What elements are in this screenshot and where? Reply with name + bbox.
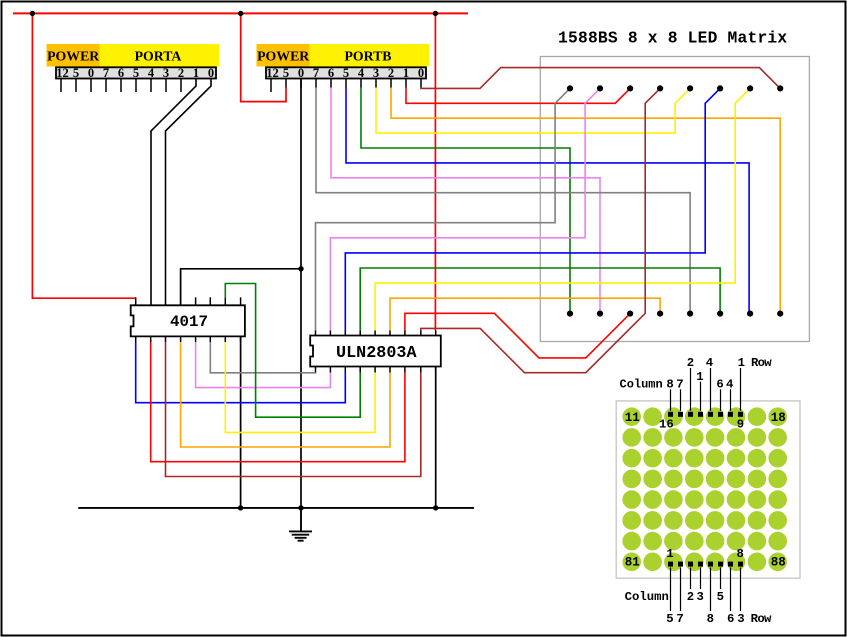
svg-text:1 Row: 1 Row (738, 356, 773, 370)
svg-text:7: 7 (313, 66, 319, 80)
svg-text:2: 2 (687, 590, 694, 604)
wire ULN2803A pin 2 to matrix top pin dot 2 (violet) (330, 88, 600, 330)
svg-text:1: 1 (403, 66, 409, 80)
wire +V rail to PORTB 5V pin (red) (241, 13, 286, 101)
svg-text:6: 6 (328, 66, 334, 80)
svg-text:5: 5 (666, 612, 673, 626)
ground symbol (289, 508, 312, 541)
4017 top pin stubs (136, 297, 241, 305)
matrix bottom pin pads (pins 1..8) (668, 562, 743, 567)
svg-text:7: 7 (676, 377, 683, 391)
matrix schematic top pin nodes (row pins) (567, 85, 783, 91)
svg-text:88: 88 (771, 556, 786, 570)
svg-text:3 Row: 3 Row (737, 612, 772, 626)
svg-text:1: 1 (666, 547, 673, 561)
pin number labels PORTA 12 5 0 7 6 5 4 3 2 1 0 (56, 66, 214, 80)
svg-text:8: 8 (737, 547, 744, 561)
top pin leader lines (671, 368, 741, 411)
junction node ground bus / 4017 (238, 505, 243, 510)
wire PORTA pin 0 to 4017 input (black) (166, 79, 212, 306)
wire 4017 top pin to ULN input pin 12 (green) (225, 284, 360, 418)
svg-text:2: 2 (687, 356, 694, 370)
junction node rail / PORTB 5V (238, 11, 243, 16)
svg-text:0: 0 (88, 66, 94, 80)
svg-text:7: 7 (676, 612, 683, 626)
wire +V rail to 4017 VCC pin (red) (32, 13, 135, 298)
svg-text:POWER: POWER (257, 49, 310, 64)
wire PORTB 0V pin down to ground bus (black) (300, 79, 302, 508)
svg-text:1588BS 8 x 8 LED Matrix: 1588BS 8 x 8 LED Matrix (558, 29, 787, 48)
wire PORTB pin 7 to matrix bottom pin dot 5 (gray) (316, 88, 690, 314)
svg-text:11: 11 (625, 411, 640, 425)
wire 4017 output to ULN input pin 9 (gray) (210, 342, 315, 373)
wire ULN2803A pin 4 to matrix bottom pin dot 6 (green) (360, 268, 720, 331)
svg-text:0: 0 (208, 66, 214, 80)
wire 4017 bottom pin 8 to ground bus (black) (240, 336, 242, 508)
svg-text:Column: Column (625, 590, 669, 604)
wire 4017 top pin to 0V line (black) (181, 269, 301, 306)
connector header PORTB (yellow) (257, 44, 430, 67)
svg-text:6: 6 (727, 612, 734, 626)
junction node rail / ULN COM (433, 11, 438, 16)
wire ULN2803A pin 7 to matrix bottom pin dot 3 (red) (405, 313, 630, 358)
svg-text:9: 9 (737, 418, 744, 432)
pin number labels PORTB 12 5 0 7 6 5 4 3 2 1 0 (266, 66, 424, 80)
svg-text:4: 4 (706, 356, 714, 370)
svg-text:8: 8 (666, 377, 673, 391)
wire ULN2803A pin 3 to matrix top pin dot 6 (blue) (345, 88, 720, 330)
wire 4017 output to ULN input pin 14 (orange) (181, 342, 390, 447)
wire PORTB pin 1 to matrix top pin dot 3 (red) (406, 88, 630, 104)
svg-text:1: 1 (193, 66, 199, 80)
4017 bottom pin stubs (136, 336, 241, 342)
svg-text:5: 5 (133, 66, 139, 80)
connector header PORTA power section (orange) (47, 44, 100, 67)
ULN2803A bottom pin stubs (316, 367, 436, 373)
svg-text:5: 5 (717, 590, 724, 604)
svg-text:18: 18 (771, 411, 786, 425)
junction node PORTB 0V / 4017 pin wire (298, 266, 303, 271)
pin stubs PORTB connected pins (286, 79, 421, 88)
wire +V rail to ULN2803A COM pin 10 (red) (434, 13, 436, 330)
connector header PORTB power section (orange) (257, 44, 310, 67)
svg-text:3: 3 (163, 66, 169, 80)
wire ULN2803A pin 8 to matrix top pin dot 4 (dark red) (421, 88, 660, 372)
svg-text:81: 81 (625, 556, 640, 570)
svg-text:4: 4 (358, 66, 365, 80)
LED matrix schematic box outline (540, 57, 809, 342)
wire 4017 output to ULN input pin 11 (blue) (136, 342, 346, 403)
svg-text:6: 6 (716, 377, 723, 391)
svg-text:12: 12 (266, 66, 279, 80)
wire PORTA pin 1 to 4017 clock input (black) (151, 79, 196, 306)
wire PORTB pin 2 to matrix bottom pin dot 8 (orange) (391, 88, 780, 314)
wire PORTB pin 6 to matrix bottom pin dot 2 (violet) (331, 88, 600, 314)
svg-text:3: 3 (373, 66, 379, 80)
svg-text:8: 8 (707, 612, 714, 626)
wire ULN2803A pin 1 to matrix top pin dot 1 (gray) (316, 88, 571, 330)
pin strip PORTA (56, 67, 216, 78)
wire 4017 output to ULN input pin 10 (violet) (196, 342, 331, 388)
wire ULN2803A pin 9 to ground bus (black) (435, 367, 437, 508)
svg-text:2: 2 (178, 66, 184, 80)
svg-text:POWER: POWER (47, 49, 100, 64)
wire ULN2803A pin 6 to matrix bottom pin dot 4 (orange) (390, 298, 660, 330)
svg-text:PORTA: PORTA (135, 49, 182, 64)
svg-text:5: 5 (283, 66, 289, 80)
connector header PORTA (yellow) (47, 44, 220, 67)
unconnected pin stub PORTB pin 12 (270, 79, 272, 93)
wire PORTB pin 0 to matrix top pin dot 8 (dark red) (421, 68, 780, 89)
svg-text:0: 0 (418, 66, 424, 80)
svg-text:16: 16 (659, 418, 674, 432)
wire 4017 output to ULN input pin 15 (red) (151, 342, 405, 462)
svg-text:Column: Column (620, 377, 663, 391)
LED lens grid 8x8 (622, 407, 787, 571)
svg-text:12: 12 (56, 66, 69, 80)
unconnected pin stubs PORTA pins 12 5 0 7 6 5 4 3 2 (61, 79, 181, 93)
physical LED matrix package outline (616, 401, 800, 578)
+V power rail (red, top) (13, 12, 468, 14)
svg-text:2: 2 (388, 66, 394, 80)
svg-text:PORTB: PORTB (344, 49, 391, 64)
svg-text:4: 4 (726, 377, 734, 391)
matrix top pin pads (pins 16..9) (668, 412, 743, 417)
wire 4017 output to ULN input pin 13 (yellow) (225, 342, 375, 432)
svg-text:1: 1 (696, 370, 703, 384)
ground bus (0V) (78, 507, 474, 509)
svg-text:5: 5 (73, 66, 79, 80)
svg-text:5: 5 (343, 66, 349, 80)
svg-text:3: 3 (697, 590, 704, 604)
junction node ground bus / 0V line (298, 505, 303, 510)
wire ULN2803A pin 5 to matrix top pin dot 7 (yellow) (375, 88, 750, 330)
svg-text:6: 6 (118, 66, 124, 80)
bottom pin leader lines (671, 568, 741, 612)
driver IC U2 ULN2803A body (310, 336, 441, 367)
svg-text:7: 7 (103, 66, 109, 80)
wire 4017 output to ULN input pin 16 (dark red) (166, 342, 421, 477)
wire PORTB pin 5 to matrix bottom pin dot 7 (blue) (346, 88, 749, 314)
svg-text:4: 4 (148, 66, 155, 80)
counter IC U1 4017 body (131, 305, 245, 336)
junction node ground bus / ULN pin 9 (433, 505, 438, 510)
wire PORTB pin 3 to matrix top pin dot 5 (yellow) (376, 88, 690, 134)
junction node rail / 4017 supply (30, 11, 35, 16)
matrix schematic bottom pin nodes (column pins) (567, 311, 783, 317)
pin strip PORTB (266, 67, 426, 78)
svg-text:0: 0 (298, 66, 304, 80)
wire PORTB pin 4 to matrix bottom pin dot 1 (green) (361, 88, 570, 314)
svg-text:4017: 4017 (170, 313, 208, 331)
svg-text:ULN2803A: ULN2803A (336, 344, 417, 363)
ULN2803A top pin stubs (316, 331, 436, 336)
